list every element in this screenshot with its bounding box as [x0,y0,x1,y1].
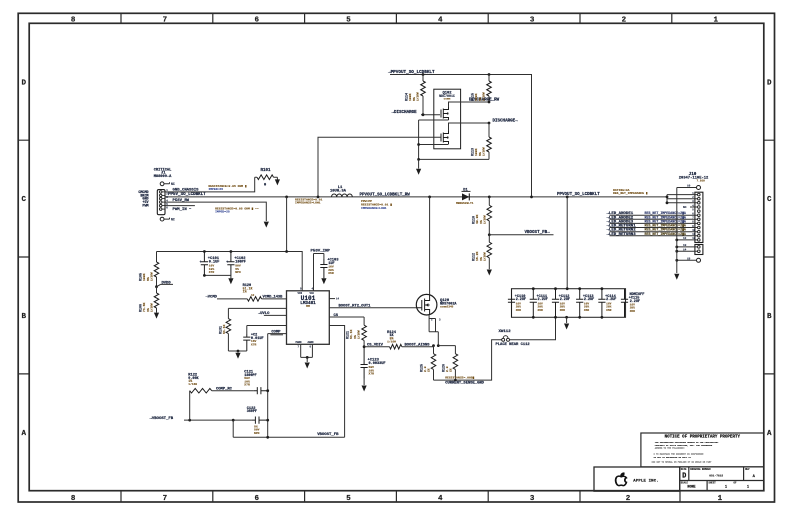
connector J1 signal names [138,191,149,209]
svg-text:PP5V_SO_LCDBKLT: PP5V_SO_LCDBKLT [168,193,206,197]
junction DISCHARGE_RW [488,101,491,104]
svg-text:360PF: 360PF [247,410,257,414]
svg-text:VBOOST_FB→: VBOOST_FB→ [525,231,551,235]
resistor R114 [422,75,424,82]
junction C122 right [266,419,269,422]
wire U101 RT stub [329,298,335,300]
svg-text:C: C [767,196,772,204]
junction top rail R114 [422,73,425,76]
size label [681,468,687,481]
junction U101 gnd [306,356,309,359]
jumper XW112 [502,338,505,341]
svg-text:7.910: 7.910 [697,180,706,183]
junction top rail R115 [488,73,491,76]
wire LED_RETURN1 [610,227,698,229]
J10 pin numbers [692,192,695,240]
svg-text:5%: 5% [478,152,482,156]
svg-text:1/16W: 1/16W [481,92,485,101]
svg-text:comm2345: comm2345 [440,306,454,309]
resistor R121 label [347,330,361,339]
junction AISNS a [432,344,435,347]
wire VBOOST_FB tap [489,234,553,236]
resistor R101 [257,175,274,180]
resistor R113 [488,123,490,137]
svg-text:→VCMD: →VCMD [206,295,218,299]
wire Q102B drain to DISCHARGE [449,123,490,131]
svg-text:APPLE INC.: APPLE INC. [633,479,659,483]
svg-text:PLACE NEAR C112: PLACE NEAR C112 [496,343,531,347]
svg-text:10: 10 [687,185,691,188]
svg-text:1: 1 [747,486,749,490]
svg-text:15: 15 [687,257,691,260]
node DVDD label [157,281,174,286]
capacitor C121 [254,387,268,394]
junction bus x531.5 [530,196,533,199]
resistor R125 label [421,364,431,372]
junction C101 top [203,250,206,253]
svg-text:1: 1 [718,495,723,503]
svg-text:MBR0520LT1: MBR0520LT1 [456,202,474,205]
svg-text:I TO MAINTAIN THE DOCUMENT IN: I TO MAINTAIN THE DOCUMENT IN CONFIDENCE [654,452,705,455]
grid zone numbers bottom [71,495,723,503]
junction bottom comp [266,436,269,439]
connector J1 heading [154,168,172,179]
junction cap bank top [532,287,603,290]
wire Q120 drain [429,197,431,295]
junction source bottom [417,158,420,161]
svg-text:1/16W: 1/16W [149,272,153,281]
transistor Q102 box [434,89,461,149]
wire sense top [434,346,456,354]
svg-text:C: C [21,196,26,204]
transistor Q102 label [439,92,455,101]
svg-text:VCMD_143B: VCMD_143B [263,296,284,300]
svg-text:NC: NC [683,206,687,209]
wire Q102 sources common [419,120,489,159]
svg-text:5%: 5% [146,277,150,281]
svg-text:1%: 1% [146,308,150,312]
svg-text:X5R: X5R [584,309,589,312]
wire COMP [268,334,287,438]
svg-text:4: 4 [438,495,443,503]
svg-text:X5R: X5R [606,309,611,312]
wire PWM_IN [165,205,195,207]
svg-text:2: 2 [622,16,627,24]
svg-text:B: B [21,313,26,321]
wire LED_RETURN2 [610,231,698,233]
svg-text:DRAWING NUMBER: DRAWING NUMBER [690,468,711,471]
bus attribute text left [295,198,323,205]
svg-text:P5SV_INP: P5SV_INP [311,249,331,253]
svg-text:14: 14 [336,298,340,301]
capacitor C122 label [247,407,257,414]
capacitor C113 [576,289,583,318]
svg-text:COMP_RC: COMP_RC [216,387,233,391]
svg-text:1/16W: 1/16W [387,339,396,343]
ground U101 [306,357,308,362]
connector J10 shell pin bottom [697,258,701,262]
svg-text:AGREES TO THE FOLLOWING:: AGREES TO THE FOLLOWING: [655,446,685,449]
resistor R125 [431,354,436,370]
ground R106 [154,313,159,319]
wire caps gnd [204,275,231,278]
rev label [745,468,755,479]
svg-text:1%: 1% [353,335,357,339]
svg-text:XW112: XW112 [499,330,512,334]
junction bus x287 [285,196,288,199]
svg-text:GND_CHASSIS: GND_CHASSIS [173,189,200,193]
capacitor C120 label [251,333,264,346]
svg-text:DISCHARGE→: DISCHARGE→ [493,120,519,124]
junction sense bottom [454,379,457,382]
capacitor C122 [252,417,268,424]
svg-text:8: 8 [71,495,76,503]
wire R131 top [228,308,286,318]
svg-text:SHEET: SHEET [709,482,717,485]
wire R131 C120 gnd [228,350,246,352]
junction cap bank bottom [532,316,603,319]
annotation PWM [215,206,259,213]
resistor R106 [156,287,158,293]
connector J10 heading [679,172,709,183]
wire CS [329,317,364,325]
svg-text:CS_VDIV: CS_VDIV [367,343,384,347]
svg-text:VIN: VIN [298,292,303,295]
svg-text:M88009-A: M88009-A [154,175,172,179]
svg-text:PGND: PGND [296,341,303,344]
svg-text:RES_NET_IMPEDANCE=2▮A: RES_NET_IMPEDANCE=2▮A [645,232,686,236]
resistor R122 [190,388,212,393]
connector J1 NC pin bottom [160,217,164,221]
svg-text:1/16W: 1/16W [188,382,197,386]
scale label [681,482,696,490]
capacitor C110 [508,289,515,318]
U101 pin names bottom [296,341,315,348]
svg-text:5: 5 [346,495,351,503]
capacitor C123 [361,347,368,379]
transistor Q102 FET A [441,107,449,120]
connector J1 pins [159,191,165,211]
svg-text:→UVLO: →UVLO [258,312,270,316]
svg-text:→DISCHARGE: →DISCHARGE [392,111,418,115]
svg-text:SIZE: SIZE [681,468,687,471]
inductor L1 label [330,186,347,193]
svg-text:A: A [767,430,772,438]
annotation J1 top [208,184,247,191]
capacitor C114 label [605,295,617,312]
junction C102 top [230,250,233,253]
resistor R114 label [406,92,420,101]
svg-text:1: 1 [725,486,727,490]
wire DISCHARGE to gate [421,114,440,116]
svg-text:X5R: X5R [538,309,543,312]
capacitor C115 label [629,293,645,313]
capacitor C103 label [327,259,339,275]
wire net PP5V_SO_LCDBKLT main bus [165,196,667,198]
svg-text:NOTICE OF PROPRIETARY PROPERTY: NOTICE OF PROPRIETARY PROPERTY [665,435,741,439]
notice paragraph [655,441,719,449]
title block grid [680,467,764,491]
junction J10 bus a [666,196,669,199]
transistor Q120 label [440,299,457,308]
svg-text:IMPEDANCE=LOW1: IMPEDANCE=LOW1 [361,206,387,210]
connector J10 shell pin top [697,186,701,190]
transistor Q120 [416,294,437,315]
svg-text:REV: REV [745,468,750,471]
grid zone numbers top [71,16,719,24]
resistor R110 [488,197,490,205]
svg-text:X7R: X7R [244,382,250,386]
inductor L1 [332,194,353,197]
capacitor C112 label [559,295,570,312]
junction DVDD [155,285,158,288]
junction bus x318 [317,196,320,199]
svg-text:12: 12 [683,237,687,240]
capacitor C111 [530,289,537,318]
svg-text:5%: 5% [412,97,416,101]
resistor R105 [156,252,158,263]
resistor R122 label [188,373,199,386]
wire J10 ground rail [676,188,678,274]
resistor R120 label [243,284,255,297]
resistor R115 [488,75,490,82]
resistor R105 label [140,272,154,281]
wire Q102A drain to DISCHARGE_RW [449,102,490,107]
svg-text:X7R: X7R [251,342,257,346]
svg-text:NONE: NONE [687,486,695,490]
bus attribute text mid [361,199,392,210]
ground cap bank [566,317,568,323]
svg-text:CURRENT_SENSE_GND: CURRENT_SENSE_GND [445,382,484,386]
wire U101 gnd pins [301,344,313,357]
arrow P5SV_RW down [264,222,269,228]
capacitor C111 label [537,295,548,312]
resistor R124 label [387,331,397,344]
svg-text:1%: 1% [479,220,483,224]
junction AISNS b [437,344,440,347]
ground divider [487,270,492,276]
wire net PPVOUT_SO_LCDBKLT top rail [390,75,532,197]
Q120 pin numbers [431,319,441,322]
wire LED_ANODE2 [610,218,698,220]
svg-text:1%: 1% [243,290,247,294]
wire FB down [329,326,344,438]
junction FB corner [232,419,235,422]
transistor Q102 FET B [441,131,449,144]
grid zone letters left [21,79,26,438]
wire VBOOST_FB row [184,419,252,421]
svg-text:1: 1 [714,16,719,24]
svg-text:D: D [21,79,26,87]
junction sources [417,143,420,146]
resistor R131 label [220,325,227,334]
capacitor C101 [201,252,208,276]
junction R122 tap [188,419,191,422]
svg-text:13: 13 [683,244,687,247]
bus attribute text right [613,188,648,195]
svg-text:PPVOUT_SO_LCDBKLT: PPVOUT_SO_LCDBKLT [557,193,600,197]
junction CS_VDIV [363,345,366,348]
svg-text:NC: NC [171,182,175,186]
svg-text:AGND: AGND [308,341,315,344]
connector J1 NC pin top [160,182,164,186]
capacitor C102 [227,252,234,276]
connector J10 pins [698,193,701,241]
svg-text:P5SV_RW: P5SV_RW [173,199,190,203]
wire J10 pin12 gnd [677,239,698,241]
wire UVLO stub [264,314,287,316]
J10 pin4 NC [690,206,698,208]
ground input caps [228,278,233,284]
svg-text:D: D [767,79,772,87]
svg-text:B: B [767,313,772,321]
resistor R126 [453,354,458,370]
resistor R131 [226,319,231,334]
junction bus x567.2 [566,196,569,199]
svg-text:X7R: X7R [209,270,215,274]
svg-text:X5R: X5R [560,309,565,312]
ground C103 [321,278,326,284]
grid row dividers left [18,140,29,374]
svg-text:VBOOST_FB: VBOOST_FB [317,433,339,437]
connector J10 body2 pins [698,246,701,253]
apple logo box [594,467,680,491]
svg-text:RESISTANCE=.005▮: RESISTANCE=.005▮ [445,375,474,379]
svg-text:NPO: NPO [254,431,260,435]
wire LED_ANODE3 [610,222,698,224]
svg-text:NC: NC [171,218,175,222]
svg-text:COMP: COMP [271,330,281,334]
resistor R112 [487,242,492,258]
capacitor C120 [243,334,250,351]
svg-text:→PPVOUT_SO_LCDBKLT: →PPVOUT_SO_LCDBKLT [388,70,435,75]
wire input rail [157,197,303,291]
junction divider VBOOST_FB [488,233,491,236]
junction bus x429.6 [428,196,431,199]
svg-text:R101: R101 [260,169,271,173]
diode D1 label [456,188,474,205]
svg-text:7: 7 [163,16,168,24]
capacitor bank box [512,289,626,318]
notice box [641,433,764,467]
svg-text:1/16W: 1/16W [415,92,419,101]
wire shell top [677,187,697,189]
junction caps bottom [203,274,206,277]
svg-text:PWM_IN −: PWM_IN − [173,208,193,212]
svg-text:6: 6 [254,495,259,503]
capacitor C103 [320,259,327,278]
svg-text:51.1K: 51.1K [222,325,226,334]
resistor R112 label [473,252,487,261]
diode D1 [462,193,469,200]
svg-text:6: 6 [254,16,259,24]
svg-text:VCC: VCC [310,292,315,295]
wire R122 drop [189,391,191,420]
svg-text:X5R: X5R [630,310,635,313]
svg-text:1/16W: 1/16W [482,252,486,261]
op-amp U101 label [300,295,316,308]
svg-text:7: 7 [163,495,168,503]
svg-text:8: 8 [71,16,76,24]
wire cap bank feed [566,197,568,289]
wire P5SV_RW [165,202,266,221]
op-amp U101 box [287,291,330,345]
svg-text:14: 14 [683,249,687,252]
svg-text:BOOST_RT2_OUT1: BOOST_RT2_OUT1 [339,304,372,308]
grid column dividers bottom [121,491,680,502]
wire Q102B gate from bus riser [318,137,441,197]
svg-text:NPO: NPO [235,270,241,274]
svg-text:1/16W: 1/16W [481,147,485,156]
svg-text:2: 2 [626,495,631,503]
wire XW112 to caps [510,317,556,340]
svg-text:II NOT TO REPRODUCE OR COPY IT: II NOT TO REPRODUCE OR COPY IT [654,456,692,459]
connector J1 pin numbers [166,189,168,209]
grid zone letters right [767,79,772,438]
junction DISCHARGE R114 [422,113,425,116]
connector J10 body2 [695,245,703,255]
junction input rail [285,250,288,253]
junction gnd R131 [237,350,240,353]
svg-text:1/16W: 1/16W [149,303,153,312]
capacitor C122 attrs [254,424,260,434]
connector J10 body [695,192,703,242]
ground discharge block [418,159,420,168]
capacitor C123 label [368,359,386,376]
svg-text:D: D [682,473,686,481]
svg-text:A: A [21,430,26,438]
wire shell bottom [677,259,697,261]
resistor R120 [247,297,261,302]
capacitor C121 label [244,370,256,386]
svg-text:→VBOOST_FB: →VBOOST_FB [150,417,174,421]
svg-text:1/16W: 1/16W [356,330,360,339]
drawing number label [690,468,723,478]
svg-text:1%: 1% [427,368,430,372]
capacitor C113 label [583,295,594,312]
junction COMP C121 [266,389,269,392]
wire CS_VDIV [364,346,389,348]
wire C120 [247,326,287,335]
sheet label [709,482,750,490]
svg-text:12: 12 [251,294,255,297]
wire VCMD [217,298,247,300]
resistor R110 label [473,215,487,224]
capacitor C115 [621,289,628,318]
capacitor C101 label [208,257,220,274]
apple logo [616,473,627,486]
wire BOOST_FET gate [329,307,417,309]
arrow R101 down [275,179,280,185]
svg-text:3: 3 [530,16,535,24]
ground R131 C120 [237,351,239,353]
svg-text:IMPED=25: IMPED=25 [208,187,223,191]
svg-text:CS: CS [334,314,339,318]
svg-text:X5R: X5R [328,271,334,275]
svg-text:1%: 1% [449,368,452,372]
wire LED_RETURN3 [610,235,698,237]
wire J10 bus pins [667,195,698,203]
junction bus x489.3 [488,196,491,199]
svg-text:X5R: X5R [516,309,521,312]
svg-text:5%: 5% [478,97,482,101]
junction J10 bus b [666,201,669,204]
resistor R126 label [443,364,453,372]
svg-text:comm: comm [444,98,451,101]
svg-text:SCALE: SCALE [681,482,689,485]
svg-text:5: 5 [346,16,351,24]
svg-text:X7R: X7R [369,372,375,376]
